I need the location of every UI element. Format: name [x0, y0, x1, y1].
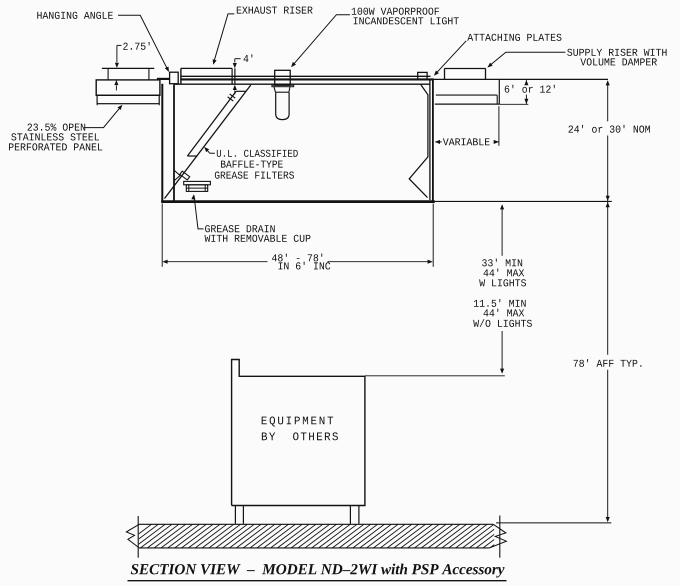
dim variable left arrow — [435, 140, 440, 144]
leader grease drain — [194, 196, 204, 229]
baffle filter clip tick 1 — [230, 94, 236, 98]
label supply riser line2 — [580, 58, 657, 65]
PSP top flange line — [102, 67, 154, 69]
dim variable line right — [494, 141, 499, 143]
label light line2 — [354, 17, 459, 24]
leader light — [292, 15, 350, 66]
right plenum panel right edge — [496, 95, 498, 104]
label light line1 — [352, 8, 439, 15]
label hanging angle — [37, 12, 113, 19]
dim 4 tail — [234, 90, 236, 94]
title text — [131, 564, 505, 578]
dim variable right arrow — [494, 140, 499, 144]
title underline — [128, 580, 507, 582]
dim 78 line lower — [607, 370, 609, 521]
light neck right — [289, 87, 290, 93]
light globe — [276, 92, 289, 119]
leader hanging angle — [118, 15, 168, 71]
hood interior right panel profile — [409, 85, 428, 198]
leader supply riser arrow — [487, 63, 492, 68]
dim 24-30 line upper — [607, 82, 609, 122]
equipment top extension line — [365, 375, 505, 377]
floor right break — [490, 524, 507, 548]
right plenum right edge — [498, 79, 500, 104]
baffle filter clip tick 2 — [228, 97, 234, 101]
leader grease drain arrow — [191, 194, 195, 199]
PSP collar left side — [107, 68, 109, 79]
dim 24-30 up arrow — [606, 80, 610, 85]
dim 2.75 tail — [115, 86, 117, 91]
hood top lower line — [174, 83, 430, 85]
hood bottom extension line to dimension — [435, 200, 612, 202]
dim 33-44 line upper — [501, 206, 503, 256]
PSP perforated panel — [97, 95, 159, 103]
exhaust riser right side outer — [234, 68, 236, 84]
dim 4 top arrow — [233, 63, 237, 68]
PSP collar right side — [148, 68, 150, 79]
floor hatching — [120, 524, 528, 548]
leader light arrow — [291, 62, 296, 67]
equipment left leg right line — [242, 506, 244, 524]
dim 2.75 leader vertical — [116, 45, 118, 62]
filter support diagonal line — [165, 85, 251, 199]
label equipment line2 — [262, 432, 338, 440]
label filters line3 — [215, 172, 294, 179]
dim line middle — [607, 136, 609, 355]
label perf panel line1 — [27, 124, 85, 131]
dim 2.75 leader tick — [117, 44, 122, 46]
dim 48-78 left arrow — [162, 260, 167, 264]
right extension line for width dim — [432, 204, 434, 267]
equipment right leg right line — [358, 506, 360, 524]
label equipment line1 — [262, 416, 334, 426]
leader perforated panel — [84, 106, 122, 128]
leader perforated panel arrow — [117, 105, 122, 110]
dim 6-12 line lower — [525, 95, 527, 104]
label grease drain line2 — [205, 235, 311, 242]
dim 33-44 down arrow — [500, 369, 504, 374]
hood right wall outer line — [432, 79, 434, 202]
leader grease filters — [205, 148, 215, 153]
supply riser right side — [485, 69, 487, 80]
right plenum panel top line — [436, 94, 497, 96]
dim 2.75 bottom arrow — [114, 80, 118, 85]
leader exhaust riser arrow — [213, 59, 217, 65]
dim text 78 aff typ — [574, 359, 642, 367]
label exhaust riser — [237, 7, 313, 14]
light junction box — [275, 70, 291, 85]
exhaust riser top line — [181, 67, 232, 69]
dim text 44 max wo — [484, 309, 525, 317]
label grease drain line1 — [205, 225, 275, 232]
floor left break vertical — [137, 516, 139, 558]
dim text w/o lights — [473, 319, 532, 327]
dim 4 bottom arrow — [233, 85, 237, 90]
dim 78 up arrow — [606, 202, 610, 207]
floor extension line — [496, 522, 611, 524]
dim text 4 — [244, 54, 253, 62]
grease drain flange — [184, 181, 211, 184]
baffle filter upper edge — [187, 91, 236, 156]
supply riser top — [444, 68, 485, 70]
leader supply riser — [488, 52, 565, 66]
label filters line2 — [221, 161, 283, 168]
dim 48-78 line right — [328, 261, 431, 263]
extension line for 6-12 dim — [499, 103, 528, 105]
label attaching plates — [467, 34, 561, 41]
hood right wall inner line — [429, 80, 431, 200]
label perf panel line3 — [9, 143, 102, 150]
dim 2.75 top arrow — [115, 63, 119, 68]
exhaust riser left side — [180, 68, 182, 84]
equipment right leg left line — [349, 506, 351, 524]
hood left wall inner line — [173, 85, 175, 201]
hood top upper line — [180, 75, 430, 77]
equipment left leg left line — [234, 506, 236, 524]
floor right break vertical — [499, 516, 501, 558]
right plenum bottom line — [435, 103, 500, 105]
hanging angle bracket — [170, 72, 179, 84]
dim 24-30 down arrow — [606, 196, 610, 201]
PSP panel left foot — [96, 104, 98, 106]
leader attaching plates — [435, 41, 466, 75]
dim 6-12 line upper — [525, 80, 527, 85]
equipment box outline — [232, 360, 365, 506]
wall mounting chevron — [175, 171, 181, 181]
floor bottom line — [139, 547, 490, 549]
dim 48-78 right arrow — [428, 260, 433, 264]
dim text w lights — [479, 279, 526, 286]
label filters line1 — [217, 150, 298, 157]
hood left wall outer line — [161, 84, 163, 203]
extension line for VARIABLE dim — [498, 106, 500, 146]
light neck left — [274, 87, 275, 93]
dim 48-78 line left — [164, 261, 268, 263]
left extension line for width dim — [161, 204, 163, 267]
leader hanging angle arrow — [165, 66, 169, 72]
leader grease filters arrow — [204, 147, 209, 152]
dim 33-44 up arrow — [500, 204, 504, 209]
floor left break — [126, 524, 139, 548]
leader attaching plates arrow — [434, 71, 439, 76]
light flange — [272, 85, 294, 87]
dim 6-12 down arrow — [524, 99, 528, 104]
dim 4 leader tick — [235, 58, 241, 60]
PSP to hood thick joint line — [157, 78, 172, 80]
dim text 33 min — [482, 259, 522, 267]
label supply riser line1 — [567, 49, 666, 56]
dim text 11.5 min — [474, 299, 526, 307]
supply riser left side — [444, 69, 446, 80]
grease drain cup — [186, 185, 207, 192]
label perf panel line2 — [11, 133, 99, 140]
dim 6-12 up arrow — [524, 80, 528, 85]
light globe top line — [276, 91, 289, 93]
leader exhaust riser — [214, 14, 235, 63]
grease drain cup inner left — [188, 185, 190, 192]
dim 33-44 line lower — [501, 331, 503, 372]
dim 78 down arrow — [606, 517, 610, 522]
attaching plate — [418, 72, 427, 79]
dim variable line left — [435, 141, 441, 143]
floor top line — [139, 523, 493, 525]
dim text in 6 inc — [278, 262, 330, 270]
hood top thick line — [180, 78, 434, 80]
filter bottom support bracket — [180, 171, 190, 180]
dim text 44 max w — [484, 269, 525, 277]
baffle filter bottom end cap — [187, 155, 197, 157]
dim text 6 or 12 — [505, 85, 555, 93]
dim text 24 or 30 nom — [568, 125, 650, 133]
baffle filter top end cap — [236, 90, 246, 92]
dim text 2.75 — [123, 42, 149, 50]
hood bottom line — [161, 200, 435, 203]
grease drain cup inner right — [204, 185, 206, 192]
dim text 48-78 — [272, 254, 322, 262]
exhaust riser right side inner — [231, 68, 233, 84]
dim text VARIABLE — [443, 138, 490, 145]
grease drain cup mid line — [186, 187, 207, 189]
PSP plenum box — [96, 80, 160, 95]
PSP panel right foot — [158, 104, 160, 106]
right plenum top line / extension to dimension — [434, 78, 608, 80]
dim 4 leader vertical — [234, 59, 236, 63]
